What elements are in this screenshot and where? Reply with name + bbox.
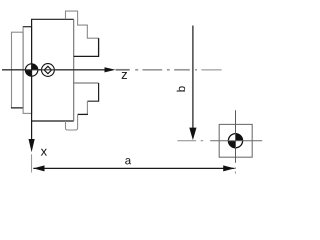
Z axis line (2, 69, 106, 71)
Z axis arrow (105, 67, 116, 72)
dimension a line (33, 167, 234, 169)
tool reference symbol (228, 134, 242, 148)
tool crosshair vertical (235, 110, 237, 173)
X centerline tail (31, 154, 33, 172)
tool crosshair horizontal (177, 140, 262, 142)
svg-text:a: a (125, 155, 132, 167)
chuck adapter rect (23, 27, 32, 114)
workpiece zero symbol W (42, 64, 55, 77)
dimension a right arrow (223, 165, 234, 171)
chuck body (32, 19, 74, 121)
axis lines over zero symbols (25, 64, 55, 78)
bottom jaw (66, 83, 99, 130)
chuck flange rect (11, 32, 24, 108)
Z centerline dash-dot (116, 69, 222, 71)
dimension b line (192, 26, 194, 130)
top jaw (66, 11, 99, 56)
svg-text:b: b (176, 86, 188, 92)
crosshair over tool symbol (228, 133, 243, 148)
dimension a left arrow (33, 165, 44, 171)
machine zero symbol M (25, 64, 37, 76)
X axis arrow (29, 139, 35, 152)
svg-text:z: z (121, 67, 128, 82)
X axis line (31, 121, 33, 140)
tool point square (219, 124, 252, 157)
svg-text:x: x (41, 144, 48, 159)
dimension b arrow (189, 128, 196, 141)
